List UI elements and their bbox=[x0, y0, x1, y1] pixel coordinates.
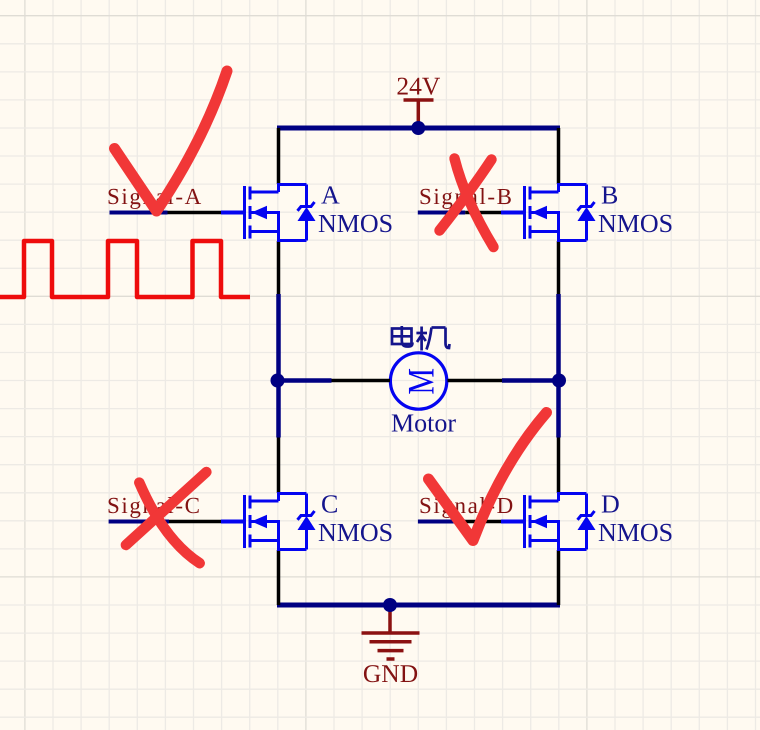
transistor A (NMOS) bbox=[221, 185, 316, 241]
svg-text:Signal-D: Signal-D bbox=[419, 493, 515, 518]
pin: A gate bbox=[168, 211, 222, 215]
svg-text:NMOS: NMOS bbox=[318, 518, 393, 547]
junction dot at 24V tap bbox=[411, 121, 425, 135]
wire: left column lower (motor rail to C drain) bbox=[276, 381, 281, 438]
label: motor chinese 电机 bbox=[392, 326, 450, 351]
wire: right column lower (motor rail to D drain) bbox=[556, 381, 561, 438]
svg-text:NMOS: NMOS bbox=[598, 209, 673, 238]
motor M1 circle bbox=[390, 353, 446, 409]
ground symbol GND bbox=[362, 605, 420, 659]
wire: left column upper (A source to motor rail) bbox=[276, 294, 281, 381]
pin: D source bbox=[557, 550, 561, 605]
wire: Signal-B net wire bbox=[418, 211, 465, 215]
annotation: X mark over Signal-C bbox=[139, 483, 199, 564]
svg-text:B: B bbox=[601, 181, 618, 210]
transistor C (NMOS) bbox=[221, 494, 316, 550]
pin: motor right bbox=[448, 379, 503, 383]
pin: B gate bbox=[465, 211, 501, 215]
pin: C drain bbox=[277, 438, 281, 494]
wire: motor rail right bbox=[502, 378, 559, 383]
pin: C source bbox=[277, 550, 281, 605]
svg-text:A: A bbox=[321, 181, 340, 210]
transistor B (NMOS) bbox=[501, 185, 596, 241]
wire: top rail 24V bbox=[277, 126, 560, 131]
svg-text:GND: GND bbox=[363, 659, 418, 688]
annotation: check mark over Signal-D bbox=[429, 413, 547, 541]
pin: C gate bbox=[169, 520, 221, 524]
wire: Signal-A net wire bbox=[110, 211, 168, 215]
svg-text:D: D bbox=[601, 490, 620, 519]
wire: Signal-C net wire bbox=[109, 520, 169, 524]
pin: B drain bbox=[557, 128, 561, 184]
svg-text:24V: 24V bbox=[396, 72, 441, 101]
svg-text:NMOS: NMOS bbox=[318, 209, 393, 238]
junction dot at GND tap bbox=[383, 598, 397, 612]
wire: bottom rail GND bbox=[277, 603, 560, 608]
annotation: check mark over Signal-A bbox=[115, 71, 228, 211]
pin: motor left bbox=[332, 379, 391, 383]
transistor D (NMOS) bbox=[501, 494, 596, 550]
wire: right column upper (B source to motor rail) bbox=[556, 294, 561, 381]
power symbol 24V bbox=[404, 100, 434, 128]
wire: motor rail left bbox=[278, 378, 332, 383]
pin: D gate bbox=[465, 520, 501, 524]
svg-text:Motor: Motor bbox=[391, 409, 456, 438]
pin: D drain bbox=[557, 438, 561, 494]
pin: A drain bbox=[277, 128, 281, 184]
junction dot motor rail right bbox=[552, 374, 566, 388]
wire: Signal-D net wire bbox=[418, 520, 465, 524]
pin: B source bbox=[557, 241, 561, 294]
junction dot motor rail left bbox=[271, 374, 285, 388]
svg-text:C: C bbox=[321, 490, 338, 519]
annotation: X mark over Signal-B bbox=[455, 159, 494, 248]
pin: A source bbox=[277, 241, 281, 294]
svg-text:NMOS: NMOS bbox=[598, 518, 673, 547]
waveform (red square wave) bbox=[0, 241, 250, 297]
svg-text:M: M bbox=[401, 368, 442, 395]
